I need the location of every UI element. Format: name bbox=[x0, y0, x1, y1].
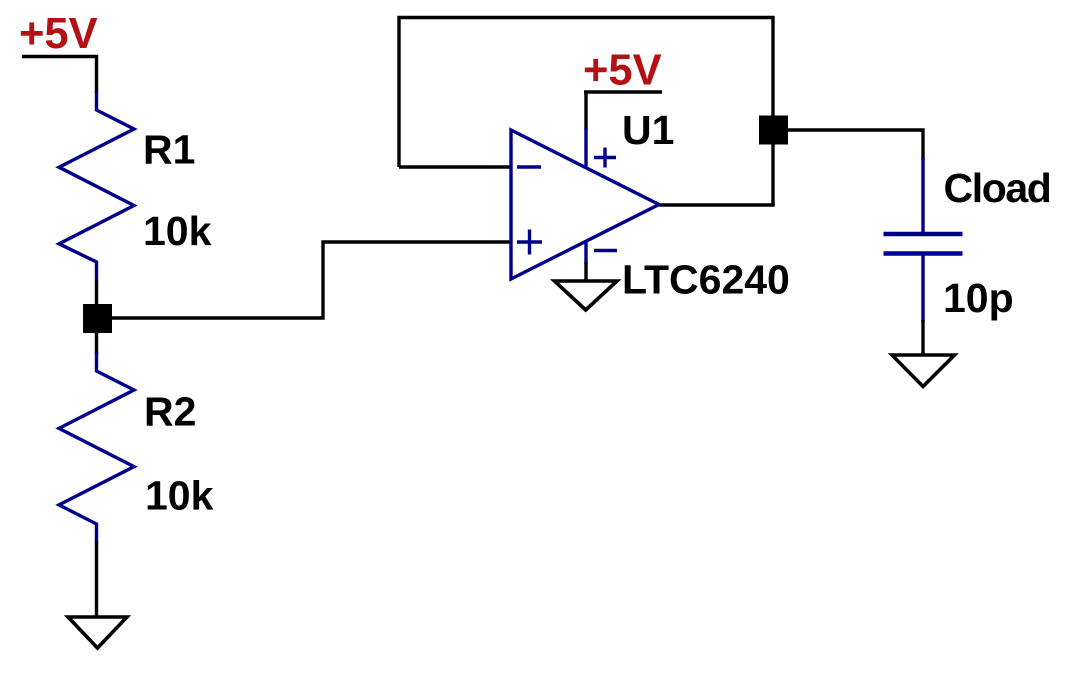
svg-text:+5V: +5V bbox=[583, 46, 662, 94]
svg-text:R2: R2 bbox=[144, 389, 196, 435]
op-amp U1 V+ pin lead bbox=[584, 128, 587, 167]
svg-text:10k: 10k bbox=[143, 208, 212, 254]
wire: node to R2 top bbox=[95, 333, 98, 354]
svg-text:10k: 10k bbox=[145, 473, 214, 519]
node junction A (R1/R2/op-amp +input) bbox=[83, 304, 112, 333]
op-amp U1 triangle bbox=[511, 130, 659, 279]
wire: output node to Cload bbox=[773, 130, 923, 160]
capacitor Cload plates bbox=[884, 232, 963, 236]
wire: node to op-amp non-inverting input bbox=[112, 242, 511, 318]
svg-text:U1: U1 bbox=[622, 107, 674, 153]
ground symbol (op-amp V-) bbox=[555, 281, 618, 310]
wire: R2 bottom to ground bbox=[95, 541, 98, 617]
wire: +5V flag bar and drop to R1 top bbox=[22, 57, 97, 94]
ground symbol (below Cload) bbox=[892, 355, 955, 387]
wire: R1 bottom lead to node bbox=[95, 280, 98, 318]
wire: V- lead to ground bbox=[584, 262, 587, 281]
resistor R1 bbox=[59, 91, 134, 281]
ground symbol (below R2) bbox=[68, 617, 127, 648]
wire: op-amp output to feedback vertical bbox=[659, 203, 775, 206]
wire: +5V flag bar and drop to op-amp V+ pin bbox=[584, 90, 662, 93]
op-amp inverting input minus sign bbox=[517, 165, 541, 168]
resistor R2 bbox=[59, 352, 134, 543]
wire: into inverting input bbox=[399, 165, 511, 168]
op-amp V- minus sign bbox=[594, 249, 617, 252]
svg-text:R1: R1 bbox=[143, 127, 195, 173]
svg-text:Cload: Cload bbox=[944, 165, 1051, 211]
wire: feedback loop (output to inverting input) bbox=[399, 18, 773, 206]
op-amp U1 V- pin lead bbox=[584, 242, 587, 264]
wire: Cload bottom to ground bbox=[921, 320, 924, 355]
capacitor Cload top lead bbox=[921, 158, 924, 232]
capacitor Cload bottom lead bbox=[921, 256, 924, 323]
op-amp non-inverting input plus sign bbox=[517, 240, 542, 243]
svg-text:LTC6240: LTC6240 bbox=[622, 257, 790, 303]
svg-text:+5V: +5V bbox=[19, 10, 98, 58]
op-amp V+ plus sign bbox=[594, 156, 616, 159]
node junction B (output node) bbox=[759, 116, 788, 145]
svg-text:10p: 10p bbox=[943, 275, 1014, 321]
